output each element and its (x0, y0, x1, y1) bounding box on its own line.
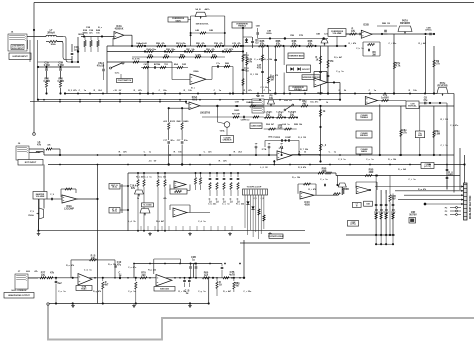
svg-text:BOOST: BOOST (302, 69, 310, 71)
svg-text:47B: 47B (212, 53, 216, 56)
svg-text:4558AX: 4558AX (115, 28, 124, 31)
svg-text:C_t: C_t (408, 178, 412, 181)
svg-text:1M: 1M (303, 137, 306, 139)
svg-text:L_2: L_2 (322, 144, 327, 147)
svg-text:2k0: 2k0 (142, 274, 147, 277)
svg-text:OVERDRIVE BASS: OVERDRIVE BASS (288, 54, 304, 57)
svg-text:R_f: R_f (250, 74, 254, 76)
svg-text:R2R: R2R (278, 127, 283, 130)
svg-text:P5B: P5B (214, 43, 218, 45)
svg-text:BASS: BASS (361, 150, 367, 153)
svg-text:47k: 47k (292, 43, 297, 46)
svg-text:47B: 47B (257, 67, 262, 70)
svg-text:PH0A: PH0A (28, 214, 34, 217)
svg-text:C_l: C_l (440, 145, 444, 147)
svg-text:REVERB: REVERB (438, 85, 448, 88)
svg-text:10V: 10V (379, 212, 384, 215)
svg-text:4k7: 4k7 (235, 285, 240, 288)
svg-text:R6B: R6B (225, 63, 230, 65)
svg-text:4.7k: 4.7k (396, 65, 401, 68)
svg-text:1R0A: 1R0A (50, 43, 56, 46)
svg-text:GAIN: GAIN (175, 19, 181, 22)
svg-text:C6PR 8.2: C6PR 8.2 (241, 120, 251, 122)
svg-text:R5B: R5B (156, 43, 161, 45)
svg-text:10V: 10V (384, 212, 389, 215)
svg-text:B20A: B20A (266, 32, 272, 35)
svg-text:1M: 1M (445, 119, 448, 121)
svg-text:1B0A: 1B0A (82, 31, 88, 34)
svg-text:1M: 1M (270, 79, 273, 82)
svg-text:2M: 2M (372, 54, 375, 57)
svg-text:0.30B: 0.30B (58, 80, 65, 83)
svg-text:4.7k: 4.7k (435, 63, 440, 66)
svg-text:R5G: R5G (206, 49, 211, 51)
svg-text:C5B: C5B (290, 35, 295, 37)
svg-text:CLEAN GAIN: CLEAN GAIN (251, 124, 262, 127)
svg-text:150u: 150u (171, 49, 176, 51)
svg-text:10R BOOST/L: 10R BOOST/L (195, 24, 209, 26)
svg-text:47u: 47u (117, 264, 122, 267)
svg-text:L2A: L2A (282, 123, 286, 126)
svg-text:1M: 1M (255, 74, 258, 76)
svg-text:REVERB: REVERB (400, 22, 410, 25)
svg-text:1x78m: 1x78m (150, 49, 156, 51)
svg-text:70V: 70V (391, 198, 396, 201)
svg-text:C_i: C_i (388, 43, 392, 45)
svg-text:C4B: C4B (316, 33, 321, 36)
svg-text:R_j: R_j (418, 43, 422, 45)
svg-text:C_f: C_f (260, 87, 264, 89)
svg-text:0.068: 0.068 (58, 64, 65, 67)
svg-text:HIGH INPUT: HIGH INPUT (12, 48, 24, 50)
svg-text:34-PL STEREOP: 34-PL STEREOP (11, 289, 27, 292)
svg-text:COMP: COMP (285, 137, 292, 139)
svg-text:50/70V: 50/70V (409, 214, 417, 217)
svg-text:47k: 47k (91, 257, 96, 260)
svg-text:4558: 4558 (192, 99, 198, 102)
svg-text:5A_B: 5A_B (195, 8, 201, 11)
svg-text:TREBLE: TREBLE (360, 117, 369, 119)
svg-text:MAIN AMP SECTION: MAIN AMP SECTION (469, 195, 472, 219)
svg-text:C_r: C_r (243, 291, 247, 293)
svg-text:47/50u: 47/50u (425, 29, 432, 32)
svg-text:OVERDRIVE CONTOUR: OVERDRIVE CONTOUR (302, 77, 321, 79)
svg-text:2x78c: 2x78c (180, 43, 186, 45)
svg-text:R_i: R_i (348, 43, 352, 45)
svg-text:47k: 47k (276, 43, 281, 46)
svg-text:47k: 47k (278, 114, 283, 117)
svg-text:EXT INPUT: EXT INPUT (25, 162, 37, 164)
svg-text:87k: 87k (131, 187, 136, 190)
svg-text:47k: 47k (308, 43, 313, 46)
svg-text:IC8B 13600: IC8B 13600 (160, 288, 169, 290)
svg-text:R_t: R_t (308, 188, 312, 191)
svg-text:R6T 23R: R6T 23R (232, 114, 241, 116)
svg-text:R5B: R5B (180, 54, 185, 56)
svg-text:4u7B: 4u7B (229, 274, 235, 277)
svg-text:R_r: R_r (178, 291, 182, 293)
svg-text:R_l: R_l (440, 119, 444, 121)
svg-text:2DR: 2DR (369, 171, 374, 174)
svg-text:71R: 71R (164, 64, 168, 66)
svg-text:IC7A: IC7A (262, 148, 267, 151)
svg-text:1n/50V: 1n/50V (381, 97, 389, 100)
svg-text:4k7: 4k7 (104, 284, 109, 287)
svg-text:C3B: C3B (86, 27, 91, 29)
svg-text:B2TB4: B2TB4 (154, 63, 161, 66)
svg-text:0.30B: 0.30B (44, 80, 51, 83)
svg-text:TDA7.: TDA7. (81, 288, 87, 291)
svg-text:S2B: S2B (284, 100, 288, 102)
svg-text:47k: 47k (260, 43, 265, 46)
svg-text:10V: 10V (374, 212, 379, 215)
svg-text:1K-OL: 1K-OL (112, 211, 117, 213)
svg-text:T47A: T47A (220, 130, 225, 133)
svg-text:MIDDLE: MIDDLE (360, 135, 368, 137)
svg-text:(LT PL): (LT PL) (424, 166, 431, 168)
svg-text:47k: 47k (266, 114, 271, 117)
svg-text:TO EFX LOOP: TO EFX LOOP (247, 187, 262, 189)
svg-text:47k: 47k (50, 272, 55, 275)
svg-text:0.068: 0.068 (44, 64, 51, 67)
svg-text:R5D: R5D (196, 43, 201, 45)
svg-text:2u2: 2u2 (57, 282, 62, 285)
svg-text:2R6uH: 2R6uH (47, 32, 55, 35)
svg-text:C5R: C5R (235, 102, 240, 104)
svg-text:4558: 4558 (304, 204, 310, 207)
svg-text:1M: 1M (387, 23, 390, 25)
svg-text:A47k: A47k (205, 8, 211, 11)
svg-text:47k: 47k (290, 114, 295, 117)
svg-text:R_w: R_w (418, 189, 423, 191)
svg-text:47k: 47k (330, 60, 335, 63)
svg-text:47k: 47k (248, 61, 253, 64)
svg-text:P7B: P7B (299, 35, 303, 37)
svg-text:ZUR: ZUR (182, 64, 187, 66)
svg-text:10V: 10V (391, 212, 396, 215)
svg-text:LC5B: LC5B (195, 54, 201, 56)
svg-text:VOLUME: VOLUME (333, 33, 343, 35)
svg-text:47k: 47k (351, 30, 356, 33)
svg-text:C4B: C4B (256, 25, 261, 28)
svg-text:L2COMP: L2COMP (64, 208, 74, 211)
svg-text:VOLUME: VOLUME (36, 196, 45, 198)
svg-text:C_m: C_m (84, 270, 89, 272)
svg-text:IC5B: IC5B (363, 24, 369, 27)
svg-text:LM13700: LM13700 (200, 112, 211, 115)
svg-text:R6B: R6B (344, 188, 349, 191)
svg-text:L4B: L4B (195, 29, 199, 32)
svg-text:FOOTSWITCH: FOOTSWITCH (118, 80, 132, 82)
svg-text:(LT PL): (LT PL) (350, 224, 356, 226)
svg-text:R4E: R4E (177, 120, 182, 123)
svg-text:M_2 13600: M_2 13600 (144, 205, 152, 207)
svg-text:R56A: R56A (193, 70, 199, 73)
svg-text:47k: 47k (41, 274, 46, 277)
svg-text:sw: sw (289, 100, 292, 102)
svg-text:4k7: 4k7 (303, 103, 308, 106)
svg-text:10k: 10k (269, 97, 274, 100)
svg-text:2DR: 2DR (322, 170, 327, 173)
svg-text:C4B: C4B (209, 29, 214, 32)
svg-text:BOXCAL: BOXCAL (408, 105, 417, 108)
svg-text:B5A: B5A (174, 63, 179, 66)
svg-text:L5B: L5B (148, 54, 152, 56)
svg-text:1K-OL: 1K-OL (112, 187, 117, 189)
svg-text:CRUNCH: CRUNCH (223, 140, 232, 142)
svg-text:R_4 77k: R_4 77k (132, 58, 140, 61)
svg-text:47u: 47u (423, 99, 428, 102)
svg-text:1.5M: 1.5M (435, 133, 440, 136)
svg-text:4.7k: 4.7k (402, 132, 407, 135)
svg-text:R8B: R8B (382, 23, 387, 25)
svg-text:GUITAR INPUT: GUITAR INPUT (12, 55, 28, 58)
svg-text:B4R: B4R (448, 174, 453, 177)
svg-text:47k: 47k (37, 144, 42, 147)
svg-text:L7B: L7B (232, 43, 236, 45)
svg-text:B4E0: B4E0 (183, 120, 189, 123)
svg-text:C6A: C6A (246, 101, 251, 104)
svg-text:4u7: 4u7 (204, 274, 209, 277)
svg-text:HEADPHONE OUTPUT: HEADPHONE OUTPUT (8, 294, 30, 297)
svg-text:bat1k20: bat1k20 (139, 42, 147, 45)
